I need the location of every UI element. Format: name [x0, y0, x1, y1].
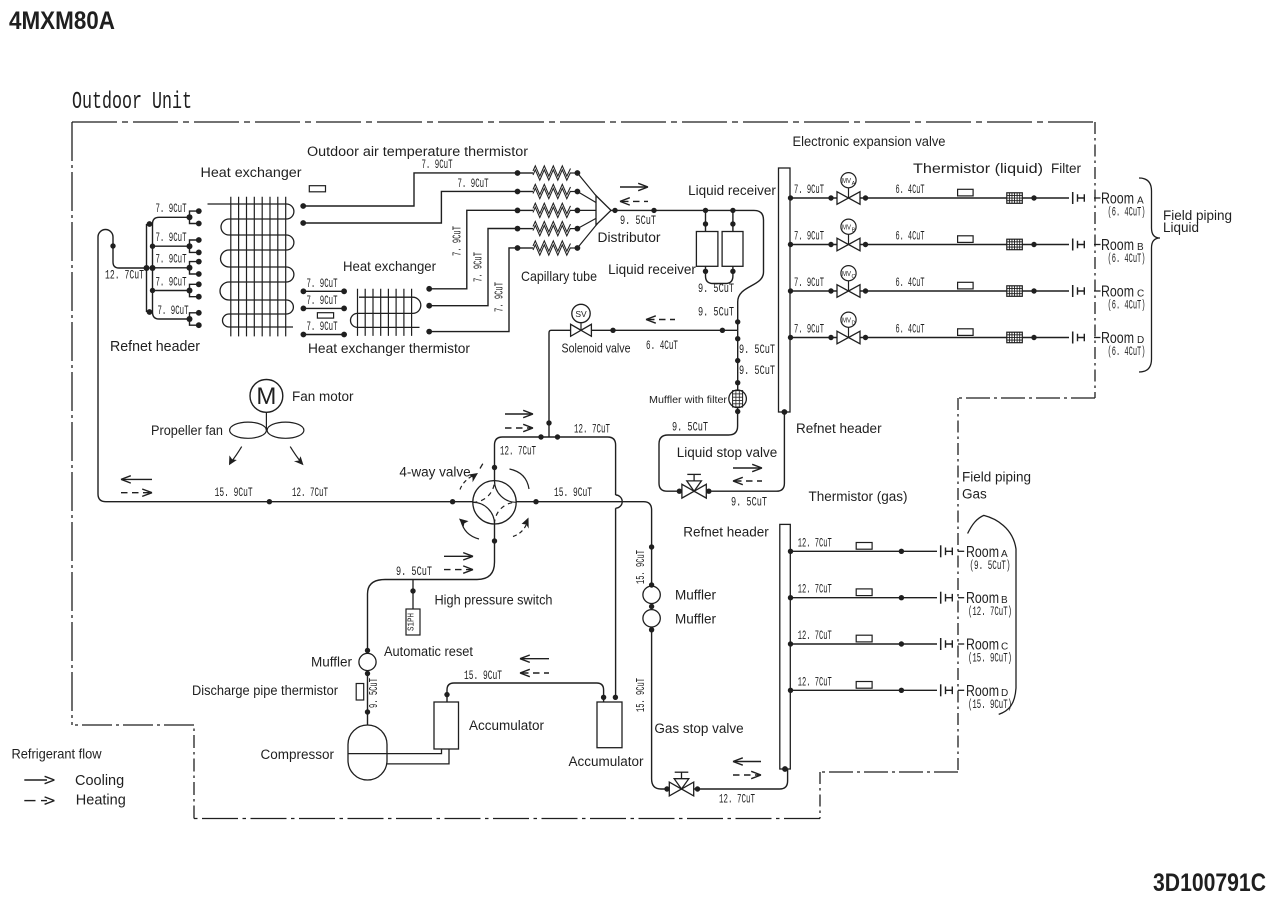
- discharge pipe thermistor: [356, 684, 364, 701]
- svg-text:C: C: [852, 274, 856, 280]
- electronic expansion valve MVC: [837, 285, 849, 298]
- refnet branch 4 7.9CuT: [153, 290, 190, 292]
- svg-text:Liquid stop valve: Liquid stop valve: [677, 445, 778, 460]
- heat exchanger (left) coil: [208, 204, 294, 327]
- wire 15.9CuT / 12.7CuT left main line: [106, 501, 473, 503]
- svg-text:S1PH: S1PH: [407, 613, 417, 631]
- svg-text:Cooling: Cooling: [75, 773, 124, 789]
- 4-way valve: [473, 481, 516, 524]
- electronic expansion valve MVD: [837, 331, 849, 344]
- fan motor: [250, 380, 283, 413]
- wire 6.4CuT room C: [860, 290, 1069, 292]
- svg-text:(6. 4CuT): (6. 4CuT): [1108, 298, 1146, 313]
- svg-text:12. 7CuT: 12. 7CuT: [798, 674, 832, 689]
- svg-text:MV: MV: [842, 315, 851, 324]
- svg-text:Fan motor: Fan motor: [292, 389, 354, 404]
- svg-text:6. 4CuT: 6. 4CuT: [896, 275, 925, 290]
- liquid receiver 2: [722, 232, 743, 267]
- heat exchanger thermistor symbol: [317, 313, 333, 318]
- svg-text:Filter: Filter: [1051, 161, 1082, 176]
- svg-text:15. 9CuT: 15. 9CuT: [464, 668, 502, 683]
- svg-text:7. 9CuT: 7. 9CuT: [156, 274, 187, 289]
- cooling arrow (discharge): [444, 555, 471, 557]
- compressor to accumulator pipe: [387, 749, 449, 764]
- svg-text:6. 4CuT: 6. 4CuT: [646, 338, 678, 353]
- svg-text:Liquid: Liquid: [1163, 220, 1199, 235]
- branch fork to heat exchanger: [190, 211, 199, 223]
- svg-text:Muffler with filter: Muffler with filter: [649, 394, 728, 406]
- svg-text:7. 9CuT: 7. 9CuT: [422, 157, 453, 172]
- wire muffler to compressor: [367, 671, 369, 725]
- svg-text:12. 7CuT: 12. 7CuT: [500, 444, 536, 459]
- svg-text:(9. 5CuT): (9. 5CuT): [970, 558, 1011, 573]
- gas branch room D wire 12.7CuT: [790, 689, 937, 691]
- heating arrow (gas stop valve): [733, 774, 759, 776]
- svg-text:6. 4CuT: 6. 4CuT: [896, 229, 925, 244]
- wire 6.4CuT solenoid valve to liquid line: [591, 329, 737, 331]
- svg-text:7. 9CuT: 7. 9CuT: [794, 182, 824, 197]
- svg-text:M: M: [256, 383, 276, 410]
- svg-text:3D100791C: 3D100791C: [1153, 869, 1266, 897]
- field connection room D gas: [940, 684, 942, 696]
- svg-text:7. 9CuT: 7. 9CuT: [307, 276, 338, 291]
- refnet branch 3 7.9CuT: [153, 267, 190, 269]
- svg-text:Capillary tube: Capillary tube: [521, 268, 597, 284]
- accumulator 1: [434, 702, 459, 749]
- field connection room C gas: [940, 638, 942, 650]
- svg-text:12. 7CuT: 12. 7CuT: [798, 535, 832, 550]
- muffler with filter: [729, 390, 747, 408]
- filter room D: [1007, 332, 1023, 343]
- gas stop valve: [669, 782, 681, 796]
- accumulator 2: [597, 702, 622, 748]
- cooling arrow (gas stop valve): [735, 761, 761, 763]
- wire 9.5CuT distributor to liquid receivers: [611, 210, 764, 330]
- wire HX2 row2 to capillary 4 7.9CuT: [429, 229, 517, 306]
- heat exchanger (left) fins: [231, 197, 286, 337]
- svg-text:Gas: Gas: [962, 487, 987, 502]
- svg-text:Automatic reset: Automatic reset: [384, 644, 473, 659]
- cooling arrow (4-way top): [505, 413, 531, 415]
- wire 12.7CuT gas stop valve to refnet header: [694, 769, 788, 789]
- svg-text:Compressor: Compressor: [260, 747, 334, 762]
- svg-text:12. 7CuT: 12. 7CuT: [719, 792, 755, 807]
- wires capillaries to distributor: [577, 173, 598, 248]
- svg-text:9. 5CuT: 9. 5CuT: [672, 420, 708, 435]
- svg-text:Refnet header: Refnet header: [110, 339, 200, 355]
- field connection room C liquid: [1072, 285, 1074, 297]
- fan air flow arrows: [232, 447, 242, 462]
- svg-text:7. 9CuT: 7. 9CuT: [307, 319, 338, 334]
- svg-text:Distributor: Distributor: [598, 229, 661, 245]
- liquid receiver bottom U pipe: [706, 266, 733, 283]
- capillary tube 2: [518, 191, 534, 193]
- cooling arrow (distributor out): [620, 186, 646, 188]
- gas branch room A wire 12.7CuT: [790, 550, 937, 552]
- wire 9.5CuT to liquid stop valve: [659, 408, 738, 492]
- svg-text:15. 9CuT: 15. 9CuT: [635, 678, 648, 712]
- svg-text:15. 9CuT: 15. 9CuT: [635, 550, 648, 584]
- liquid receiver 1: [696, 232, 718, 267]
- refnet header (gas): [780, 524, 791, 769]
- field connection room B liquid: [1072, 239, 1074, 251]
- svg-text:Gas stop valve: Gas stop valve: [654, 721, 743, 736]
- cooling legend arrow: [24, 779, 47, 781]
- svg-text:7. 9CuT: 7. 9CuT: [156, 230, 187, 245]
- svg-text:SV: SV: [575, 309, 587, 319]
- svg-text:Accumulator: Accumulator: [469, 718, 545, 733]
- svg-text:Muffler: Muffler: [311, 655, 353, 670]
- svg-text:7. 9CuT: 7. 9CuT: [794, 322, 824, 337]
- heating arrow (liquid stop valve): [735, 480, 762, 482]
- wire HX2 row1 to capillary 3 7.9CuT: [429, 210, 517, 288]
- svg-text:9. 5CuT: 9. 5CuT: [739, 363, 775, 378]
- svg-text:12. 7CuT: 12. 7CuT: [105, 268, 144, 283]
- svg-text:4-way valve: 4-way valve: [399, 465, 470, 480]
- heating arrow 6.4CuT: [648, 319, 675, 321]
- svg-text:15. 9CuT: 15. 9CuT: [215, 485, 253, 500]
- svg-text:7. 9CuT: 7. 9CuT: [158, 303, 189, 318]
- wire 15.9CuT mufflers to gas stop valve: [652, 627, 670, 789]
- svg-text:9. 5CuT: 9. 5CuT: [620, 213, 656, 228]
- svg-text:Field piping: Field piping: [962, 470, 1031, 485]
- filter room B: [1007, 239, 1023, 250]
- svg-text:Muffler: Muffler: [675, 588, 717, 603]
- field piping liquid brace: [1139, 178, 1160, 372]
- cooling arrow (suction): [522, 658, 549, 660]
- outdoor air temperature thermistor symbol: [309, 186, 325, 192]
- svg-text:7. 9CuT: 7. 9CuT: [794, 275, 824, 290]
- distributor: [596, 196, 611, 225]
- cooling arrow (liquid stop valve): [733, 467, 760, 469]
- svg-text:6. 4CuT: 6. 4CuT: [896, 322, 925, 337]
- wire 12.7CuT to 4-way valve: [495, 437, 616, 495]
- svg-text:9. 5CuT: 9. 5CuT: [731, 495, 767, 510]
- wire 9.5CuT discharge 4-way to compressor: [368, 524, 495, 654]
- liquid branch room A wire 7.9CuT: [790, 197, 837, 199]
- svg-text:9. 5CuT: 9. 5CuT: [739, 342, 775, 357]
- svg-text:Heat exchanger thermistor: Heat exchanger thermistor: [308, 340, 470, 356]
- svg-text:Refrigerant flow: Refrigerant flow: [12, 746, 103, 762]
- wire 12.7CuT hook to refnet header: [98, 230, 147, 502]
- svg-text:4MXM80A: 4MXM80A: [9, 7, 115, 35]
- svg-text:(6. 4CuT): (6. 4CuT): [1108, 205, 1146, 220]
- svg-text:7. 9CuT: 7. 9CuT: [473, 252, 486, 282]
- svg-text:Outdoor air temperature thermi: Outdoor air temperature thermistor: [307, 144, 529, 159]
- thermistor (gas) room B: [856, 589, 872, 596]
- thermistor (liquid) room B: [958, 236, 974, 243]
- thermistor (liquid) room A: [958, 189, 974, 196]
- electronic expansion valve MVB: [837, 238, 849, 251]
- svg-text:Discharge pipe thermistor: Discharge pipe thermistor: [192, 683, 338, 698]
- svg-text:Refnet header: Refnet header: [683, 525, 769, 540]
- hop over 15.9 line: [616, 495, 623, 508]
- liquid stop valve: [682, 484, 694, 498]
- wire HX2 row3 to capillary 5 7.9CuT: [429, 248, 517, 332]
- branch fork to heat exchanger: [190, 262, 199, 274]
- heating arrow (discharge): [444, 569, 471, 571]
- thermistor (liquid) room D: [958, 329, 974, 336]
- thermistor (gas) room A: [856, 543, 872, 550]
- svg-text:7. 9CuT: 7. 9CuT: [452, 226, 465, 256]
- capillary tube 5: [518, 247, 534, 249]
- svg-text:9. 5CuT: 9. 5CuT: [698, 305, 734, 320]
- wire 6.4CuT room B: [860, 244, 1069, 246]
- svg-text:MV: MV: [842, 222, 851, 231]
- svg-text:B: B: [852, 227, 856, 233]
- capillary tube 4: [518, 228, 534, 230]
- svg-text:MV: MV: [842, 269, 851, 278]
- muffler (gas line lower): [643, 610, 660, 627]
- wire HX1 row2 to capillary 2 7.9CuT: [303, 191, 517, 223]
- thermistor (gas) room C: [856, 635, 872, 642]
- liquid receiver risers: [706, 210, 733, 231]
- svg-text:Refnet header: Refnet header: [796, 421, 882, 436]
- field piping gas brace: [968, 515, 1016, 714]
- svg-text:Muffler: Muffler: [675, 612, 717, 627]
- electronic expansion valve MVA: [837, 192, 849, 205]
- high pressure switch stub: [412, 580, 414, 610]
- svg-text:Accumulator: Accumulator: [568, 754, 644, 769]
- svg-text:Liquid receiver: Liquid receiver: [688, 183, 776, 198]
- 4-way valve curved arrows: [510, 469, 530, 489]
- svg-text:Heat exchanger: Heat exchanger: [201, 164, 302, 180]
- svg-text:9. 5CuT: 9. 5CuT: [368, 678, 381, 708]
- svg-text:Outdoor Unit: Outdoor Unit: [72, 89, 192, 116]
- heating arrow (suction): [522, 672, 549, 674]
- cooling arrow (left main): [123, 478, 152, 480]
- heating arrow (4-way top): [505, 427, 531, 429]
- liquid branch room B wire 7.9CuT: [790, 244, 837, 246]
- refnet header (left): [146, 224, 148, 312]
- svg-text:Liquid receiver: Liquid receiver: [608, 262, 696, 277]
- svg-text:(12. 7CuT): (12. 7CuT): [968, 604, 1012, 619]
- wire 9.5CuT liquid stop valve to refnet header: [706, 412, 784, 491]
- svg-text:A: A: [852, 181, 856, 187]
- branch fork to heat exchanger: [190, 313, 199, 325]
- svg-text:7. 9CuT: 7. 9CuT: [458, 176, 489, 191]
- svg-text:Solenoid valve: Solenoid valve: [562, 342, 631, 356]
- wire 6.4CuT room D: [860, 337, 1069, 339]
- svg-text:7. 9CuT: 7. 9CuT: [307, 293, 338, 308]
- wire 15.9CuT 4-way valve to mufflers: [516, 502, 651, 586]
- svg-text:12. 7CuT: 12. 7CuT: [798, 582, 832, 597]
- wire HX1 row1 to capillary 1 7.9CuT: [303, 173, 517, 206]
- svg-text:D: D: [852, 320, 856, 326]
- heat exchanger (middle) fins: [358, 289, 412, 336]
- heating legend arrow: [24, 800, 35, 802]
- heating arrow (distributor in): [622, 200, 648, 202]
- field piping gas border line: [957, 398, 959, 772]
- svg-text:15. 9CuT: 15. 9CuT: [554, 485, 592, 500]
- filter room A: [1007, 193, 1023, 204]
- svg-text:MV: MV: [842, 176, 851, 185]
- svg-text:7. 9CuT: 7. 9CuT: [156, 252, 187, 267]
- muffler (discharge): [359, 653, 376, 670]
- svg-text:6. 4CuT: 6. 4CuT: [896, 182, 925, 197]
- high pressure switch S1PH: [406, 609, 420, 635]
- svg-text:Thermistor (gas): Thermistor (gas): [808, 489, 907, 504]
- gas branch room C wire 12.7CuT: [790, 643, 937, 645]
- heat exchanger (middle) coil: [351, 297, 421, 327]
- solenoid valve SV: [572, 304, 590, 322]
- refnet branch 1 7.9CuT: [153, 217, 190, 224]
- svg-text:12. 7CuT: 12. 7CuT: [574, 422, 610, 437]
- capillary tube 1: [518, 172, 534, 174]
- svg-text:12. 7CuT: 12. 7CuT: [292, 485, 328, 500]
- branch fork to heat exchanger: [190, 240, 199, 252]
- liquid branch room C wire 7.9CuT: [790, 290, 837, 292]
- thermistor (gas) room D: [856, 682, 872, 689]
- svg-text:9. 5CuT: 9. 5CuT: [698, 281, 734, 296]
- svg-text:9. 5CuT: 9. 5CuT: [396, 564, 432, 579]
- svg-text:Thermistor (liquid): Thermistor (liquid): [913, 161, 1043, 176]
- heat exchanger thermistor lines 7.9CuT: [303, 290, 344, 292]
- svg-text:7. 9CuT: 7. 9CuT: [494, 282, 507, 312]
- svg-text:12. 7CuT: 12. 7CuT: [798, 628, 832, 643]
- filter room C: [1007, 286, 1023, 297]
- wire 6.4CuT room A: [860, 197, 1069, 199]
- refnet branch 5 7.9CuT: [153, 312, 191, 319]
- svg-text:(6. 4CuT): (6. 4CuT): [1108, 344, 1146, 359]
- svg-text:Electronic expansion valve: Electronic expansion valve: [793, 134, 946, 149]
- heating arrow (left main): [121, 492, 150, 494]
- wire 9.5CuT down to muffler with filter: [737, 330, 739, 390]
- field connection room D liquid: [1072, 332, 1074, 344]
- field connection room A gas: [940, 545, 942, 557]
- liquid branch room D wire 7.9CuT: [790, 337, 837, 339]
- propeller fan: [230, 422, 267, 438]
- thermistor (liquid) room C: [958, 282, 974, 289]
- svg-text:Heating: Heating: [76, 793, 126, 809]
- svg-text:(6. 4CuT): (6. 4CuT): [1108, 251, 1146, 266]
- svg-text:(15. 9CuT): (15. 9CuT): [968, 651, 1012, 666]
- compressor: [348, 725, 387, 780]
- gas branch room B wire 12.7CuT: [790, 597, 937, 599]
- branch fork to heat exchanger: [190, 284, 199, 296]
- svg-text:(15. 9CuT): (15. 9CuT): [968, 697, 1012, 712]
- svg-text:7. 9CuT: 7. 9CuT: [794, 229, 824, 244]
- svg-text:Propeller fan: Propeller fan: [151, 423, 223, 438]
- field connection room A liquid: [1072, 192, 1074, 204]
- svg-text:Heat exchanger: Heat exchanger: [343, 258, 436, 274]
- refnet branch 2 7.9CuT: [153, 245, 190, 247]
- svg-text:High pressure switch: High pressure switch: [435, 593, 553, 608]
- field connection room B gas: [940, 592, 942, 604]
- outdoor unit dash-dot border: [72, 121, 1095, 123]
- svg-text:7. 9CuT: 7. 9CuT: [156, 201, 187, 216]
- refnet header (liquid): [779, 168, 791, 412]
- wire solenoid valve to 12.7CuT line: [549, 330, 571, 437]
- muffler (gas line upper): [643, 586, 660, 603]
- wire 15.9CuT suction to accumulators: [447, 683, 604, 702]
- capillary tube 3: [518, 209, 534, 211]
